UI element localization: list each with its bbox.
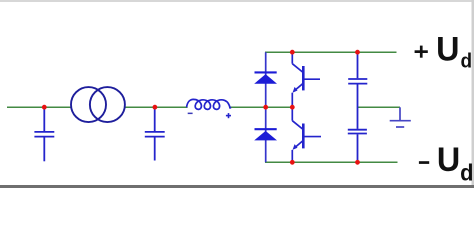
frame right border <box>472 0 474 188</box>
inductor L1 <box>187 99 232 109</box>
node junction diode leg mid <box>263 105 268 110</box>
inductor polarity plus label <box>226 113 231 118</box>
svg-text:U: U <box>437 141 460 179</box>
diode D1 top <box>254 72 277 83</box>
node junction Q2 emitter bottom rail <box>290 160 295 165</box>
node junction Q1 collector top rail <box>290 50 295 55</box>
capacitor C2 filter <box>145 107 165 160</box>
diode D2 bottom <box>254 129 277 140</box>
node junction C4 bottom rail <box>355 160 360 165</box>
label -Ud text <box>437 141 474 185</box>
wire AC input left <box>7 106 72 108</box>
capacitor C4 dc-link bottom <box>348 130 367 163</box>
label +Ud plus sign <box>415 46 428 58</box>
wire -Ud bottom rail <box>265 161 398 163</box>
wire +Ud top rail <box>265 51 397 53</box>
inductor polarity minus label <box>188 113 193 115</box>
wire diode leg vertical <box>265 52 267 162</box>
wire capacitor midpoint to ground <box>358 106 401 108</box>
node junction transistor leg mid <box>290 105 295 110</box>
wire transformer secondary to inductor <box>125 106 188 108</box>
transformer T1 <box>71 87 125 122</box>
node junction at C1 <box>42 105 47 110</box>
capacitor C3 dc-link top <box>348 52 367 129</box>
capacitor C1 input filter <box>34 107 54 161</box>
transistor Q2 bottom <box>292 107 321 162</box>
label +Ud text <box>436 31 472 73</box>
label -Ud minus sign <box>419 161 429 164</box>
frame top border <box>0 0 474 2</box>
ground <box>390 107 411 127</box>
svg-text:U: U <box>436 31 459 69</box>
svg-text:d: d <box>460 50 472 73</box>
svg-text:d: d <box>460 160 473 186</box>
node junction at C2 <box>153 105 158 110</box>
frame bottom border <box>0 185 474 188</box>
transistor Q1 top <box>292 52 320 107</box>
wire inductor to bridge <box>230 106 292 108</box>
node junction C3 top rail <box>355 50 360 55</box>
